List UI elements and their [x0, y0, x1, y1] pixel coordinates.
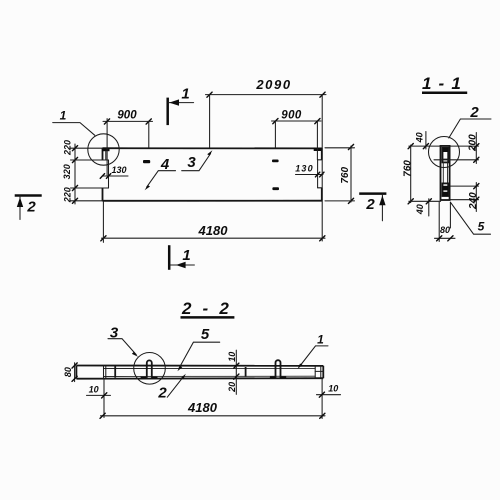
right end box midline: [315, 370, 323, 372]
title underline: [422, 91, 467, 94]
detail circle 1-1: [429, 137, 460, 168]
bottom void box: [443, 183, 449, 196]
dimension 900 left: line and ticks: [103, 120, 153, 122]
dimension 80 (2-2 left): [74, 363, 76, 382]
dimension 240 right bottom: [475, 183, 477, 212]
left anchor bar: [114, 366, 116, 377]
svg-text:130: 130: [295, 164, 314, 174]
left recess step bottom: [103, 187, 109, 189]
svg-text:4180: 4180: [198, 223, 229, 238]
svg-text:5: 5: [478, 220, 485, 234]
top void inner mark: [443, 158, 448, 160]
svg-text:1: 1: [182, 247, 190, 264]
title underline 2-2: [181, 316, 235, 319]
dimension 2090: line and ticks: [206, 94, 327, 96]
lifting loop right: [276, 360, 281, 378]
strip right edge: [322, 366, 324, 378]
mid chain 10/20 (2-2): [235, 350, 237, 394]
embedded plate mark left end: [102, 148, 110, 151]
lifting loop left: [147, 360, 152, 377]
dimension 760 section: [410, 145, 412, 203]
bottom void fill lower: [443, 192, 448, 196]
svg-text:2: 2: [469, 104, 479, 121]
svg-text:20: 20: [227, 382, 237, 393]
chain extension step1: [71, 159, 109, 161]
dimension 4180 plan: [102, 237, 326, 239]
top void insert fill: [443, 148, 448, 152]
section mark 2 right: [359, 192, 386, 195]
svg-text:5: 5: [201, 326, 210, 343]
dimension 10 (2-2 right): [321, 378, 323, 418]
chain ticks: [72, 146, 77, 151]
strand dash upper-left: [143, 160, 150, 163]
extension bottom-left 1-1: [409, 200, 441, 202]
loop left feet: [141, 377, 147, 379]
dimension 40 bottom: [428, 199, 430, 216]
right recess face: [317, 160, 319, 188]
svg-text:2090: 2090: [255, 77, 291, 92]
PLAN VIEW beam outline top edge: [103, 147, 323, 149]
dimension 10 (2-2 left): [103, 379, 105, 418]
strip top edge: [76, 365, 323, 367]
chain extension top: [71, 147, 103, 149]
beam left edge lower: [102, 188, 104, 201]
svg-text:3: 3: [187, 154, 196, 171]
svg-text:1: 1: [60, 109, 67, 123]
svg-text:900: 900: [117, 110, 137, 122]
svg-text:1: 1: [181, 86, 189, 103]
chain extension step2: [71, 187, 109, 189]
strip bottom edge: [76, 377, 323, 380]
loop right feet: [270, 377, 275, 379]
middle web inner lines: [443, 162, 447, 183]
dimension 130 left: [102, 175, 128, 177]
strand dash upper-right: [272, 160, 279, 163]
left recess step top: [103, 159, 109, 161]
beam right edge lower: [321, 188, 323, 201]
section mark 1 bottom: [168, 245, 171, 270]
detail circle at left end: [88, 134, 119, 165]
chain extension bottom: [71, 200, 103, 202]
dimension 200 right top: [475, 133, 477, 164]
dimension 80 bottom 1-1: [438, 202, 440, 241]
svg-text:760: 760: [402, 160, 413, 177]
section mark 1 top: [166, 98, 169, 126]
beam bottom edge: [103, 200, 323, 202]
embedded plate mark right end: [314, 148, 322, 151]
strip left edge: [75, 366, 77, 379]
svg-text:2: 2: [157, 384, 167, 401]
right end box verticals: [315, 366, 321, 378]
svg-text:80: 80: [63, 367, 73, 377]
svg-text:10: 10: [227, 352, 237, 362]
dimension 40 top: [425, 132, 427, 150]
section body outline: [441, 146, 450, 200]
svg-text:4180: 4180: [187, 400, 218, 415]
right recess step top: [318, 159, 322, 161]
dimension 4180 (2-2): [101, 415, 326, 417]
dimension 130 right: [296, 174, 324, 176]
bottom void fill upper: [443, 186, 448, 191]
svg-text:2: 2: [365, 196, 375, 213]
svg-text:220: 220: [62, 187, 72, 203]
left recess face: [108, 160, 110, 188]
svg-text:900: 900: [281, 109, 302, 121]
svg-text:2 - 2: 2 - 2: [181, 299, 232, 318]
svg-text:10: 10: [89, 384, 99, 394]
left dimension chain line: [74, 144, 76, 204]
svg-text:40: 40: [415, 204, 425, 215]
strand dash lower-right: [272, 187, 279, 190]
svg-text:10: 10: [328, 384, 338, 394]
leader label 2: [449, 119, 491, 138]
mid anchor bar: [245, 367, 247, 377]
svg-text:200: 200: [468, 134, 479, 152]
inner wall bottom line: [104, 375, 316, 377]
extension top 1-1: [409, 145, 479, 147]
leader label 5 (1-1): [450, 202, 490, 234]
top void box: [443, 148, 449, 163]
beam left edge upper: [102, 148, 104, 160]
svg-text:80: 80: [440, 225, 450, 235]
svg-text:2: 2: [26, 199, 36, 216]
svg-text:1: 1: [317, 333, 324, 347]
right recess step bottom: [318, 187, 322, 189]
svg-text:40: 40: [415, 132, 425, 143]
svg-text:220: 220: [62, 140, 72, 156]
extension lines right side: [434, 159, 479, 161]
inner wall top line: [104, 367, 316, 369]
dimension 760 plan right: [350, 146, 352, 202]
left diaphragm plate lines: [104, 366, 106, 379]
detail circle 2-2: [134, 353, 166, 385]
beam right edge upper: [321, 148, 323, 159]
svg-text:240: 240: [468, 192, 479, 210]
svg-text:1 - 1: 1 - 1: [422, 74, 462, 93]
section mark 2 left: [15, 194, 42, 197]
svg-text:130: 130: [111, 165, 126, 175]
svg-text:320: 320: [62, 164, 72, 179]
svg-text:760: 760: [340, 167, 351, 184]
dimension 900 right: line and ticks: [272, 120, 322, 122]
